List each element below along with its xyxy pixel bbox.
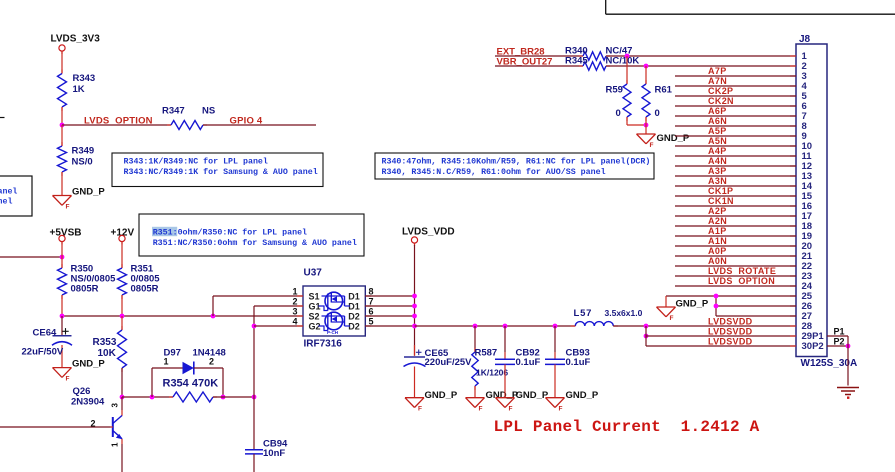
svg-text:A0P: A0P — [708, 246, 727, 256]
node Q26 collector junction — [120, 395, 125, 400]
svg-text:A2N: A2N — [708, 216, 727, 226]
wire LVDSVDD pin30 — [646, 345, 796, 347]
svg-text:R587: R587 — [475, 348, 498, 359]
wire R343 to node LVDS_OPTION — [61, 107, 63, 125]
svg-text:3: 3 — [292, 307, 297, 317]
svg-text:GND_P: GND_P — [72, 359, 105, 370]
svg-text:CK2N: CK2N — [708, 96, 734, 106]
svg-text:A4N: A4N — [708, 156, 727, 166]
capacitor CE65 — [414, 345, 416, 356]
note box R351/R350 — [139, 214, 364, 256]
svg-text:R351:0ohm/R350:NC for LPL pane: R351:0ohm/R350:NC for LPL panel — [153, 227, 307, 237]
svg-text:A6P: A6P — [708, 106, 727, 116]
svg-text:F: F — [479, 406, 483, 413]
wire VBR_OUT27 row — [495, 65, 583, 67]
svg-text:GND_P: GND_P — [676, 298, 709, 309]
wire GPIO 4 row — [203, 124, 316, 126]
wire J8 pin21 net A0P — [675, 255, 796, 257]
svg-text:GND_P: GND_P — [486, 390, 519, 401]
node R59 junction — [625, 54, 630, 59]
svg-text:0.1uF: 0.1uF — [516, 357, 541, 368]
node gate column junction — [252, 395, 257, 400]
svg-text:2N3904: 2N3904 — [71, 397, 105, 408]
wire source rail to U37 S2 — [62, 315, 303, 317]
wire J8 pin15 net CK1P — [675, 195, 796, 197]
capacitor CE64 — [61, 316, 63, 336]
svg-text:220uF/25V: 220uF/25V — [425, 357, 473, 368]
svg-text:D1: D1 — [348, 301, 360, 311]
wire J8 pin14 net A3N — [675, 185, 796, 187]
resistor R353 — [121, 316, 123, 330]
resistor R351 — [121, 264, 123, 268]
svg-text:A4P: A4P — [708, 146, 727, 156]
svg-text:R347: R347 — [162, 106, 185, 117]
resistor R350 — [61, 264, 63, 268]
svg-text:A7N: A7N — [708, 76, 727, 86]
wire LVDSVDD rail — [415, 325, 576, 327]
capacitor CB92 — [504, 326, 506, 352]
capacitor CB93 — [554, 326, 556, 352]
wire J8 pin26 — [716, 305, 796, 307]
svg-text:0.1uF: 0.1uF — [566, 357, 591, 368]
svg-text:CK1N: CK1N — [708, 196, 734, 206]
node S1 branch junction — [211, 314, 216, 319]
svg-text:CK2P: CK2P — [708, 86, 733, 96]
svg-text:7: 7 — [369, 297, 374, 307]
resistor R59 — [626, 56, 628, 84]
wire R340 to J8 pin1 — [606, 55, 796, 57]
svg-text:1K/1206: 1K/1206 — [476, 368, 508, 378]
svg-text:A3N: A3N — [708, 176, 727, 186]
op-amp U37 IRF7316 dual P-MOSFET — [303, 286, 365, 336]
svg-text:2: 2 — [209, 356, 214, 366]
svg-text:10nF: 10nF — [263, 448, 285, 459]
svg-text:+5VSB: +5VSB — [50, 228, 82, 239]
svg-text:U37: U37 — [304, 268, 323, 279]
wire J8 pin10 net A5N — [675, 145, 796, 147]
svg-text:NC/10K: NC/10K — [606, 55, 640, 66]
svg-text:D2: D2 — [348, 321, 360, 331]
svg-text:J8: J8 — [799, 34, 811, 45]
wire J8 pin12 net A4N — [675, 165, 796, 167]
svg-text:F: F — [670, 315, 674, 322]
svg-text:R351:NC/R350:0ohm for Samsung: R351:NC/R350:0ohm for Samsung & AUO pane… — [153, 238, 357, 248]
node pin26 junction — [714, 304, 719, 309]
capacitor CB94 — [245, 449, 263, 451]
connector J8 body — [796, 44, 827, 357]
wire node to R349 — [61, 125, 63, 146]
note box left edge (clipped) — [0, 176, 32, 216]
svg-text:LVDS_3V3: LVDS_3V3 — [51, 34, 101, 45]
resistor R345 — [579, 65, 583, 67]
svg-text:R345: R345 — [565, 55, 588, 66]
svg-text:F: F — [559, 406, 563, 413]
wire J8 pin9 net A5P — [675, 135, 796, 137]
wire J8 pin8 net A6N — [675, 125, 796, 127]
wire Q26 base from left edge — [0, 426, 111, 428]
svg-text:30P2: 30P2 — [802, 341, 824, 352]
wire J8 pin19 net A1P — [675, 235, 796, 237]
wire G1 to U37 — [254, 305, 303, 307]
svg-text:0: 0 — [655, 108, 660, 119]
connector J8 pin stubs — [790, 55, 796, 57]
svg-text:S1: S1 — [309, 291, 320, 301]
svg-text:10K: 10K — [98, 348, 117, 359]
svg-text:GND_P: GND_P — [657, 133, 690, 144]
wire from left edge to +5VSB column — [0, 256, 62, 258]
note box R343/R349 — [112, 153, 323, 187]
wire gate column G1/G2 — [253, 306, 255, 450]
resistor R347 — [167, 124, 171, 126]
resistor R587 — [474, 326, 476, 352]
svg-text:R353: R353 — [93, 337, 117, 348]
wire J8 pin27 — [716, 315, 796, 317]
svg-text:0805R: 0805R — [131, 284, 159, 295]
svg-text:4: 4 — [292, 317, 297, 327]
svg-text:LVDS OPTION: LVDS OPTION — [84, 116, 153, 127]
node LVDSVDD junction b — [644, 334, 649, 339]
svg-text:P-CH: P-CH — [327, 330, 338, 335]
wire EXT_BR28 row — [495, 55, 583, 57]
svg-text:1: 1 — [164, 356, 169, 366]
svg-text:LPL Panel Current 1.2412 A: LPL Panel Current 1.2412 A — [494, 418, 760, 436]
svg-text:NS: NS — [202, 106, 215, 117]
svg-text:0805R: 0805R — [71, 284, 99, 295]
wire J8 pin7 net A6P — [675, 115, 796, 117]
svg-text:6: 6 — [369, 307, 374, 317]
svg-text:A2P: A2P — [708, 206, 727, 216]
node LVDS_OPTION junction — [60, 123, 65, 128]
wire J8 pin3 net A7P — [675, 75, 796, 77]
wire J8 pin11 net A4P — [675, 155, 796, 157]
svg-text:22uF/50V: 22uF/50V — [22, 347, 64, 358]
svg-text:D2: D2 — [348, 311, 360, 321]
svg-text:3: 3 — [111, 403, 120, 408]
svg-text:+12V: +12V — [111, 228, 135, 239]
svg-text:8: 8 — [369, 287, 374, 297]
svg-text:P2: P2 — [834, 337, 845, 347]
svg-text:L57: L57 — [574, 308, 593, 319]
node D2 junction c — [412, 314, 417, 319]
wire J8 pin22 net A0N — [675, 265, 796, 267]
wire R351 to rail — [121, 295, 123, 316]
wire +5VSB to R350 — [61, 242, 63, 268]
node G2 junction — [252, 324, 257, 329]
wire LVDS_3V3 to R343 — [61, 51, 63, 73]
note box R340/R345/R59/R61 — [375, 153, 654, 179]
svg-text:NS/0: NS/0 — [72, 157, 93, 168]
wire Q26 emitter to bottom edge — [121, 439, 123, 444]
svg-text:P1: P1 — [834, 327, 845, 337]
svg-text:S2: S2 — [309, 311, 320, 321]
svg-text:R340:47ohm, R345:10Kohm/R59, R: R340:47ohm, R345:10Kohm/R59, R61:NC for … — [382, 156, 651, 166]
node R353 junction — [120, 314, 125, 319]
svg-text:2: 2 — [90, 419, 95, 429]
svg-text:R349: R349 — [72, 146, 95, 157]
resistor R349 — [61, 142, 63, 146]
svg-text:3.5x6x1.0: 3.5x6x1.0 — [605, 308, 643, 318]
svg-text:GND_P: GND_P — [516, 390, 549, 401]
wire J8 pin20 net A1N — [675, 245, 796, 247]
svg-text:R59: R59 — [606, 85, 623, 96]
wire J8 pin13 net A3P — [675, 175, 796, 177]
svg-text:anel: anel — [0, 186, 17, 196]
svg-text:1: 1 — [111, 442, 120, 447]
wire U37 drains to LVDS_VDD column — [365, 295, 414, 297]
svg-text:LVDSVDD: LVDSVDD — [708, 337, 753, 347]
node LVDSVDD junction a — [644, 324, 649, 329]
wire G2 to U37 — [254, 325, 303, 327]
node D2 junction d — [412, 324, 417, 329]
node R587 junction — [473, 324, 478, 329]
svg-text:1: 1 — [292, 287, 297, 297]
svg-text:R343: R343 — [73, 73, 96, 84]
wire R345 to J8 pin2 — [606, 65, 796, 67]
svg-text:A7P: A7P — [708, 66, 727, 76]
wire J8 pins 25-27 tie — [715, 296, 717, 316]
svg-text:A5N: A5N — [708, 136, 727, 146]
svg-text:GND_P: GND_P — [72, 186, 105, 197]
svg-text:R343:NC/R349:1K for Samsung &: R343:NC/R349:1K for Samsung & AUO panel — [124, 167, 318, 177]
svg-text:Q26: Q26 — [73, 386, 91, 397]
svg-text:A5P: A5P — [708, 126, 727, 136]
svg-text:5: 5 — [369, 317, 374, 327]
svg-text:F: F — [418, 406, 422, 413]
svg-text:IRF7316: IRF7316 — [304, 339, 343, 350]
svg-text:LVDSVDD: LVDSVDD — [708, 317, 753, 327]
svg-text:F: F — [66, 375, 70, 382]
node D97/R354 left junction — [150, 395, 155, 400]
svg-text:A1N: A1N — [708, 236, 727, 246]
svg-text:F: F — [650, 142, 654, 149]
node D1 junction a — [412, 294, 417, 299]
svg-text:0: 0 — [616, 108, 621, 119]
wire J8 pin4 net A7N — [675, 85, 796, 87]
chassis ground — [837, 387, 859, 389]
svg-text:R340, R345:N.C/R59, R61:0ohm f: R340, R345:N.C/R59, R61:0ohm for AUO/SS … — [382, 167, 606, 177]
svg-text:LVDS_VDD: LVDS_VDD — [402, 227, 455, 238]
svg-text:F: F — [509, 406, 513, 413]
node R59/R61 ground junction — [644, 123, 649, 128]
svg-text:R354 470K: R354 470K — [163, 378, 219, 390]
pin P2 wire — [827, 345, 848, 347]
wire stub left edge — [0, 117, 5, 119]
svg-text:nel: nel — [0, 197, 12, 207]
ground GND_P at J8 pins 25-27 — [665, 296, 667, 307]
pin P1 wire — [827, 335, 848, 337]
wire LVDSVDD branch vertical — [645, 326, 647, 346]
node CB92 junction — [503, 324, 508, 329]
wire R353 to Q26 collector node — [121, 368, 123, 397]
wire S1 branch — [212, 296, 214, 316]
wire J8 pin24 net LVDS OPTION — [675, 285, 796, 287]
wire J8 pin5 net CK2P — [675, 95, 796, 97]
diode D97 — [151, 368, 153, 397]
svg-text:2: 2 — [292, 297, 297, 307]
wire P1/P2 to chassis ground — [847, 336, 849, 386]
wire collector node to G node — [122, 396, 173, 398]
wire LVDS_VDD column — [414, 245, 416, 356]
svg-text:F: F — [66, 203, 70, 210]
svg-text:A6N: A6N — [708, 116, 727, 126]
node CE64 junction — [60, 314, 65, 319]
svg-text:R343:1K/R349:NC for LPL panel: R343:1K/R349:NC for LPL panel — [124, 156, 268, 166]
svg-text:LVDS ROTATE: LVDS ROTATE — [708, 266, 776, 276]
svg-text:GND_P: GND_P — [566, 390, 599, 401]
wire J8 pin18 net A2N — [675, 225, 796, 227]
svg-text:A0N: A0N — [708, 256, 727, 266]
svg-text:D1: D1 — [348, 291, 360, 301]
svg-text:LVDS OPTION: LVDS OPTION — [708, 276, 775, 286]
node CB93 junction — [553, 324, 558, 329]
node D1 junction b — [412, 304, 417, 309]
frame border fragment — [605, 0, 607, 14]
resistor R354 — [169, 396, 173, 398]
svg-text:A1P: A1P — [708, 226, 727, 236]
resistor R340 — [579, 55, 583, 57]
wire R350 to rail — [61, 295, 63, 316]
wire J8 pin6 net CK2N — [675, 105, 796, 107]
wire R59 bottom — [626, 117, 628, 125]
svg-text:GND_P: GND_P — [425, 390, 458, 401]
wire to gate node — [213, 396, 254, 398]
resistor R61 — [645, 66, 647, 84]
wire to ground — [645, 117, 647, 134]
wire R349 to ground — [61, 172, 63, 196]
resistor R343 — [61, 70, 63, 74]
svg-text:GPIO 4: GPIO 4 — [230, 116, 263, 127]
svg-text:1K: 1K — [73, 84, 85, 95]
svg-text:CE64: CE64 — [33, 328, 57, 339]
node P1/P2 junction — [846, 344, 851, 349]
wire LVDS OPTION row — [62, 124, 171, 126]
svg-text:A3P: A3P — [708, 166, 727, 176]
svg-text:W125S_30A: W125S_30A — [801, 358, 858, 369]
node +5VSB junction — [60, 255, 65, 260]
wire L57 to LVDSVDD pins — [613, 325, 796, 327]
wire J8 pin17 net A2P — [675, 215, 796, 217]
node R61 junction — [644, 64, 649, 69]
wire LVDSVDD pin29 — [646, 335, 796, 337]
wire J8 pin25 ground — [666, 295, 716, 297]
wire J8 pin23 net LVDS ROTATE — [675, 275, 796, 277]
node D97/R354 right junction — [221, 395, 226, 400]
wire J8 pin16 net CK1N — [675, 205, 796, 207]
wire CB94 to bottom edge — [253, 454, 255, 472]
svg-text:LVDSVDD: LVDSVDD — [708, 327, 753, 337]
svg-text:R61: R61 — [655, 85, 673, 96]
svg-text:CK1P: CK1P — [708, 186, 733, 196]
node pin25 junction — [714, 294, 719, 299]
wire +12V to R351 — [121, 242, 123, 268]
